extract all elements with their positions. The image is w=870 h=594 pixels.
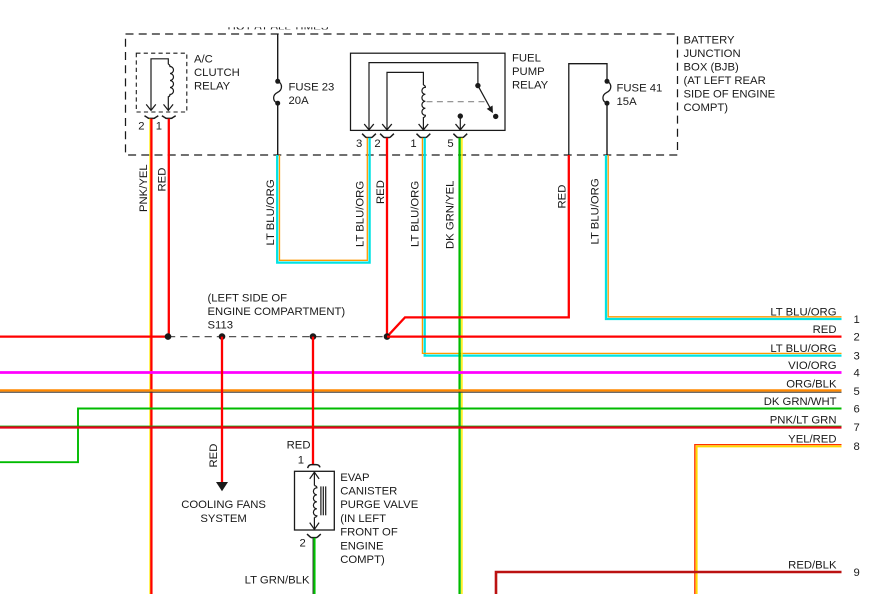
wire VIO/ORG circuit 4 xyxy=(0,371,842,374)
svg-text:RED/BLK: RED/BLK xyxy=(788,560,837,572)
svg-text:LT BLU/ORG: LT BLU/ORG xyxy=(355,181,367,247)
right margin circuit labels xyxy=(764,306,837,571)
svg-text:RED: RED xyxy=(813,324,837,336)
A/C relay pin 1 connector bracket xyxy=(162,116,176,119)
svg-text:BOX (BJB): BOX (BJB) xyxy=(684,62,739,74)
svg-text:A/C: A/C xyxy=(194,54,213,66)
label: BATTERY JUNCTION BOX (BJB) xyxy=(684,35,776,114)
wire LT BLU/ORG from fuse 41 to right edge (circuit 1) xyxy=(606,155,842,319)
svg-text:ENGINE COMPARTMENT): ENGINE COMPARTMENT) xyxy=(208,306,346,318)
svg-text:RED: RED xyxy=(157,168,169,192)
svg-text:LT BLU/ORG: LT BLU/ORG xyxy=(265,179,277,245)
fuse 23 feed wire from top xyxy=(277,34,279,81)
svg-text:(IN LEFT: (IN LEFT xyxy=(340,513,386,525)
EVAP canister purge valve box xyxy=(295,471,335,530)
label: COOLING FANS SYSTEM xyxy=(181,499,266,525)
battery junction box (BJB) dashed border xyxy=(126,34,678,155)
relay pin 5 internal wire xyxy=(459,116,461,129)
svg-text:S113: S113 xyxy=(208,319,234,331)
svg-text:2: 2 xyxy=(854,332,860,344)
relay actuator dashed linkage xyxy=(427,101,487,103)
EVAP valve core lines xyxy=(321,486,326,515)
clipped header text HOT AT ALL TIMES xyxy=(228,21,329,33)
relay pin 2 arrow xyxy=(382,124,392,130)
wire PNK/LT GRN circuit 7 xyxy=(0,426,842,427)
svg-text:DK GRN/WHT: DK GRN/WHT xyxy=(764,396,837,408)
svg-text:RED: RED xyxy=(287,440,311,452)
relay pin 2 connector bracket xyxy=(380,134,394,138)
svg-text:4: 4 xyxy=(854,368,860,380)
svg-text:COMPT): COMPT) xyxy=(684,102,729,114)
svg-text:RED: RED xyxy=(208,444,220,468)
svg-text:3: 3 xyxy=(854,351,860,363)
svg-text:3: 3 xyxy=(356,138,362,150)
EVAP valve pin 1 connector bracket xyxy=(308,465,320,469)
svg-text:COOLING FANS: COOLING FANS xyxy=(181,499,266,511)
svg-text:ORG/BLK: ORG/BLK xyxy=(786,378,837,390)
svg-text:RED: RED xyxy=(375,180,387,204)
fuse 23 element xyxy=(275,79,280,84)
svg-text:LT BLU/ORG: LT BLU/ORG xyxy=(590,178,602,244)
svg-text:LT GRN/BLK: LT GRN/BLK xyxy=(245,574,310,586)
label: FUSE 23 20A xyxy=(289,82,335,108)
wire RED from splice to cooling fans xyxy=(221,337,223,483)
svg-text:RED: RED xyxy=(557,185,569,209)
wire ORG/BLK circuit 5 xyxy=(0,391,842,393)
wire RED circuit 2 to right edge xyxy=(387,335,842,337)
wire RED from fuse 41 to splice S113 xyxy=(388,155,569,336)
label: S113 (LEFT SIDE OF ENGINE COMPARTMENT) xyxy=(208,293,346,332)
svg-text:FRONT OF: FRONT OF xyxy=(340,527,398,539)
A/C clutch relay U101 dashed outline xyxy=(136,53,187,112)
relay switch common contact xyxy=(475,83,480,88)
svg-text:LT BLU/ORG: LT BLU/ORG xyxy=(770,306,836,318)
svg-text:FUSE 23: FUSE 23 xyxy=(289,82,335,94)
cooling fans feed arrow xyxy=(216,482,228,491)
svg-text:1: 1 xyxy=(298,455,304,467)
svg-text:YEL/RED: YEL/RED xyxy=(788,433,836,445)
svg-text:8: 8 xyxy=(854,441,860,453)
relay pin 5 contact dot xyxy=(458,113,463,118)
wire PNK/YEL from A/C relay pin 2 to bottom edge xyxy=(150,119,152,594)
relay pin 1 arrow xyxy=(419,124,429,130)
splice junction dot A xyxy=(165,333,172,340)
label: EVAP CANISTER PURGE VALVE xyxy=(340,472,419,566)
EVAP valve solenoid element xyxy=(310,472,319,530)
wire DK GRN/YEL from relay pin 5 to bottom edge xyxy=(460,138,462,594)
svg-text:6: 6 xyxy=(854,404,860,416)
svg-text:CANISTER: CANISTER xyxy=(340,486,397,498)
label: FUEL PUMP RELAY xyxy=(512,53,549,92)
svg-text:7: 7 xyxy=(854,422,860,434)
svg-text:CLUTCH: CLUTCH xyxy=(194,67,240,79)
svg-text:(AT LEFT REAR: (AT LEFT REAR xyxy=(684,75,766,87)
relay pin 5 connector bracket xyxy=(453,134,467,138)
fuel pump relay pin 3 internal wire to switch xyxy=(369,63,478,130)
label: A/C CLUTCH RELAY xyxy=(194,54,240,93)
wire YEL/RED circuit 8 with bend to bottom edge xyxy=(695,445,842,594)
svg-text:COMPT): COMPT) xyxy=(340,554,385,566)
wire RED from A/C relay pin 1 to splice S113 xyxy=(168,119,170,337)
relay switch thrown contact xyxy=(493,114,498,119)
svg-text:9: 9 xyxy=(854,567,860,579)
svg-text:PNK/YEL: PNK/YEL xyxy=(138,164,150,212)
splice junction dot C xyxy=(310,333,317,340)
svg-text:SYSTEM: SYSTEM xyxy=(200,513,246,525)
svg-text:1: 1 xyxy=(156,120,162,132)
relay pin 3 arrow xyxy=(364,124,374,130)
svg-text:PURGE VALVE: PURGE VALVE xyxy=(340,499,419,511)
relay pin 1 connector bracket xyxy=(417,134,431,138)
svg-text:FUEL: FUEL xyxy=(512,53,541,65)
svg-text:1: 1 xyxy=(410,138,416,150)
relay switch blade with arrow xyxy=(478,86,490,108)
svg-text:JUNCTION: JUNCTION xyxy=(684,48,741,60)
wire LT BLU/ORG from relay pin 1 to right edge (circuit 3) xyxy=(422,138,841,356)
svg-text:EVAP: EVAP xyxy=(340,472,369,484)
A/C relay pin 2 arrow xyxy=(146,104,156,110)
svg-text:20A: 20A xyxy=(289,95,310,107)
A/C relay pin 1 arrow xyxy=(164,104,174,110)
wire RED from left edge to splice S113 xyxy=(0,335,168,337)
right margin circuit numbers xyxy=(854,314,860,579)
wire LT BLU/ORG from fuse 23 to relay pin 3 xyxy=(277,138,369,263)
svg-text:FUSE 41: FUSE 41 xyxy=(617,83,663,95)
wire RED from relay pin 2 to splice S113 xyxy=(386,138,388,337)
svg-text:BATTERY: BATTERY xyxy=(684,35,736,47)
fuel pump relay coil xyxy=(422,85,425,129)
svg-text:LT BLU/ORG: LT BLU/ORG xyxy=(409,181,421,247)
svg-text:(LEFT SIDE OF: (LEFT SIDE OF xyxy=(208,293,288,305)
splice junction dot B xyxy=(219,333,226,340)
svg-text:RELAY: RELAY xyxy=(194,80,231,92)
fuel pump relay pin 2 internal wire to coil top xyxy=(387,72,423,129)
wire LT GRN/BLK from EVAP valve to bottom edge xyxy=(313,538,315,594)
svg-text:ENGINE: ENGINE xyxy=(340,540,384,552)
splice S113 dashed bus xyxy=(168,336,387,338)
fuse 41 element xyxy=(605,79,610,84)
svg-text:2: 2 xyxy=(374,138,380,150)
svg-text:LT BLU/ORG: LT BLU/ORG xyxy=(770,343,836,355)
svg-text:SIDE OF ENGINE: SIDE OF ENGINE xyxy=(684,88,776,100)
EVAP valve pin 2 connector bracket xyxy=(307,534,321,538)
svg-text:RELAY: RELAY xyxy=(512,79,549,91)
svg-text:2: 2 xyxy=(300,537,306,549)
A/C clutch relay coil element xyxy=(151,59,174,110)
svg-text:DK GRN/YEL: DK GRN/YEL xyxy=(445,181,457,249)
fuel pump relay box xyxy=(351,53,506,130)
label: FUSE 41 15A xyxy=(617,83,663,109)
svg-text:VIO/ORG: VIO/ORG xyxy=(788,360,836,372)
svg-text:1: 1 xyxy=(854,314,860,326)
splice junction dot D xyxy=(384,333,391,340)
relay pin 3 connector bracket xyxy=(362,134,376,138)
svg-text:5: 5 xyxy=(447,138,453,150)
svg-text:15A: 15A xyxy=(617,96,638,108)
svg-text:5: 5 xyxy=(854,386,860,398)
wire DK GRN/WHT circuit 6 with bend to left edge xyxy=(0,409,842,463)
wire RED/BLK circuit 9 with bend to bottom edge xyxy=(496,572,842,594)
fuse 41 internal feed loop xyxy=(569,64,607,155)
A/C relay pin 2 connector bracket xyxy=(145,116,159,119)
svg-text:PUMP: PUMP xyxy=(512,66,545,78)
relay pin 5 arrow xyxy=(456,124,466,130)
svg-text:PNK/LT GRN: PNK/LT GRN xyxy=(770,415,837,427)
svg-text:2: 2 xyxy=(138,120,144,132)
wire RED from splice to EVAP purge valve xyxy=(312,337,314,464)
